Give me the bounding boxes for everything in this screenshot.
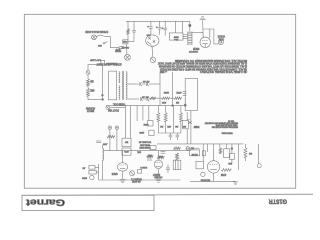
- svg-text:6BQ5: 6BQ5: [192, 47, 199, 50]
- svg-text:PRINTED CANADA: PRINTED CANADA: [221, 132, 232, 135]
- electrolytic capacitor C23: [164, 21, 166, 28]
- resistor R5: [174, 97, 181, 100]
- T3 winding b: [119, 86, 120, 100]
- resistor R4: [161, 97, 169, 100]
- wire: [155, 97, 161, 99]
- T3 core: [121, 71, 123, 100]
- vertical resistor RC: [179, 113, 182, 122]
- component blob E3: [90, 175, 94, 179]
- svg-text:6.3V LAMP: 6.3V LAMP: [89, 58, 101, 61]
- wire foot switch: [110, 107, 126, 109]
- lower bus: [104, 150, 191, 152]
- svg-text:G15TR: G15TR: [269, 197, 287, 204]
- svg-text:GUITAR: GUITAR: [86, 106, 95, 109]
- electrolytic capacitor C21: [150, 21, 152, 27]
- svg-text:Garnet: Garnet: [26, 197, 65, 207]
- component box E1: [89, 165, 95, 169]
- capacitor CGb: [176, 134, 180, 136]
- wire fuse to lamp: [124, 47, 126, 49]
- junction dots on bus: [172, 105, 174, 107]
- svg-text:115V: 115V: [173, 35, 178, 37]
- junction dot in box: [184, 104, 186, 106]
- junction node: [102, 94, 104, 96]
- T3 winding c: [126, 72, 127, 100]
- B+ bus wire: [126, 20, 190, 22]
- svg-text:220K: 220K: [163, 91, 169, 93]
- ground at right bus end: [233, 181, 238, 183]
- wires bottom left: [95, 166, 99, 168]
- wire V6 to jack: [151, 45, 154, 57]
- pilot lamp I1: [125, 54, 131, 60]
- svg-text:2) ALL RESISTORS 1/2 WATT UNLE: 2) ALL RESISTORS 1/2 WATT UNLESS OTHERWI…: [159, 65, 247, 68]
- resistor RD horizontal: [173, 147, 180, 150]
- svg-text:47K: 47K: [148, 154, 152, 156]
- svg-text:2 PRONG PLUG & CORD: 2 PRONG PLUG & CORD: [85, 30, 108, 33]
- plate stub: [209, 29, 211, 38]
- svg-text:G15 TR: G15 TR: [228, 119, 234, 121]
- svg-text:10K: 10K: [162, 101, 166, 103]
- wire drop 2: [130, 106, 132, 139]
- junction dot above T2: [189, 24, 191, 26]
- wire to jack J7: [258, 144, 260, 164]
- component box D2: [196, 161, 204, 169]
- volume pot VR1: [108, 126, 112, 130]
- wire box to cap lead: [128, 41, 134, 43]
- preamp tube V1: [117, 163, 127, 171]
- wire vertical tremolo 1: [159, 72, 161, 106]
- wire drop r4: [226, 144, 228, 149]
- jack J4: [150, 57, 155, 62]
- svg-text:3) ALL CAPACITOR VALUES GIVEN: 3) ALL CAPACITOR VALUES GIVEN IN MFD UNL…: [160, 68, 247, 71]
- svg-text:1M: 1M: [160, 125, 163, 127]
- AC plug P1: [92, 35, 97, 40]
- wire drop r1: [202, 144, 204, 161]
- speaker jack J5: [218, 39, 223, 44]
- wire jack up and over: [88, 65, 101, 71]
- stacked box CB2: [122, 148, 131, 155]
- svg-text:FGW: FGW: [193, 125, 199, 127]
- capacitor right of V2: [166, 167, 170, 169]
- svg-text:12AX7: 12AX7: [152, 173, 160, 176]
- coupling jack J3: [130, 171, 135, 176]
- resistor R13: [244, 148, 247, 158]
- electrolytic capacitor C22: [159, 21, 161, 27]
- jack J6: [201, 172, 205, 176]
- vertical resistor RA: [157, 113, 160, 122]
- resistor under pots: [107, 135, 115, 138]
- wires T3 to caps: [128, 83, 139, 85]
- input jack J1: [86, 71, 90, 75]
- oscillator component box: [101, 60, 105, 64]
- svg-text:6AV6: 6AV6: [111, 172, 117, 175]
- preamp tube V3: [207, 161, 219, 173]
- svg-text:.02 .02: .02 .02: [142, 80, 149, 82]
- wire box to transformer: [183, 36, 185, 38]
- component box E2: [89, 170, 96, 174]
- wire ground to tube: [202, 20, 205, 37]
- hatch box right of V2: [173, 160, 181, 169]
- rectifier tube V6 5Y3: [146, 35, 159, 46]
- capacitor C1 pair: [139, 82, 141, 86]
- resistor R20: [127, 29, 130, 35]
- wire box to preamp bus: [190, 111, 192, 144]
- svg-text:1500: 1500: [81, 176, 87, 178]
- ground below V2: [157, 169, 159, 179]
- wire drop r6: [244, 144, 246, 148]
- power switch box S2: [123, 40, 128, 44]
- capacitor C20: [133, 21, 135, 30]
- small box D3: [202, 151, 205, 156]
- title block separator line: [22, 194, 313, 195]
- svg-text:330K: 330K: [143, 123, 148, 125]
- wire vertical tremolo 2: [172, 72, 174, 106]
- wire bus drop at 128: [127, 21, 129, 28]
- svg-text:117V: 117V: [115, 48, 120, 50]
- preamp tube V2: [154, 160, 162, 168]
- wire from field box lead: [186, 112, 188, 121]
- resistor drop r3: [219, 144, 221, 148]
- capacitor C2 pair: [140, 97, 142, 101]
- svg-text:PWR: PWR: [122, 40, 127, 42]
- lower bus right: [190, 180, 236, 182]
- bus drop to T1 box: [175, 21, 177, 33]
- wire: [169, 97, 174, 99]
- ground at output stage: [200, 19, 206, 21]
- wire to resistor row: [148, 97, 151, 100]
- T2 winding rungs: [188, 32, 192, 44]
- svg-text:47K: 47K: [167, 125, 171, 127]
- switch S1: [103, 43, 104, 44]
- title block Garnet logo box: [22, 195, 154, 210]
- wire loop tube to speaker jack: [203, 29, 218, 44]
- power transformer T1 terminal box: [169, 33, 183, 40]
- wire box to pilot lamp: [126, 44, 128, 55]
- tone pot VR2: [115, 126, 119, 130]
- wire below choke: [101, 161, 103, 181]
- wire down left of transformer: [101, 64, 103, 99]
- border frame: [24, 14, 295, 188]
- resistor R3: [150, 97, 155, 100]
- T1 to T2 stub wires: [183, 35, 188, 39]
- resistor R11: [221, 169, 231, 172]
- fuse F1: [119, 46, 124, 48]
- output transformer T2 rails: [187, 32, 189, 46]
- svg-text:INPUT: INPUT: [86, 109, 94, 112]
- wire T2 to power tube: [192, 32, 203, 34]
- T3 winding a: [119, 72, 120, 84]
- wire vertical tremolo 3 (into field box edge): [184, 98, 186, 105]
- ground below V1: [122, 171, 124, 179]
- svg-text:5K 2W: 5K 2W: [191, 153, 197, 155]
- foot switch jack J2: [106, 106, 110, 110]
- upper right bus: [186, 143, 244, 145]
- right bus extension: [157, 143, 186, 145]
- small comp: [150, 146, 156, 150]
- svg-text:TONE 500K: TONE 500K: [139, 146, 151, 148]
- resistor network above tubes: [147, 157, 152, 159]
- svg-text:1M: 1M: [176, 101, 179, 103]
- trim component mark: [188, 121, 191, 124]
- stacked box CB1: [122, 138, 131, 146]
- jack J7: [257, 164, 261, 168]
- svg-text:1M: 1M: [249, 152, 252, 154]
- svg-text:2.2M 3: 2.2M 3: [140, 166, 147, 168]
- power tube V4 6BQ5: [200, 37, 210, 47]
- svg-text:68K: 68K: [90, 89, 95, 91]
- svg-text:VOICE: VOICE: [217, 35, 225, 37]
- component box D1: [190, 150, 200, 156]
- wire drop mid: [172, 106, 174, 133]
- main horizontal bus: [106, 105, 185, 107]
- svg-text:1M: 1M: [175, 125, 178, 127]
- wires around R1 R2: [87, 75, 89, 79]
- svg-text:REVERB: REVERB: [200, 179, 210, 181]
- wire hline 133: [158, 132, 181, 134]
- svg-text:VOLUME .02: VOLUME .02: [138, 141, 151, 143]
- line cord wire: [96, 35, 119, 48]
- svg-text:TREM COIL: TREM COIL: [112, 103, 125, 105]
- svg-text:.05 .05: .05 .05: [141, 95, 148, 97]
- resistor tails: [231, 159, 233, 163]
- capacitor CF: [96, 140, 101, 142]
- wire drop 1: [124, 106, 126, 139]
- wire drop r2: [207, 144, 209, 152]
- wire drop 5: [148, 106, 150, 121]
- resistor R2: [87, 88, 90, 96]
- tremolo transformer T3 shield box: [109, 71, 117, 100]
- long vline right: [238, 144, 240, 170]
- second right bus segment: [186, 147, 200, 149]
- resistor R1: [87, 79, 90, 86]
- vertical resistor RB: [164, 113, 167, 122]
- svg-text:500K AUD: 500K AUD: [140, 143, 150, 146]
- choke L1: [101, 145, 103, 149]
- svg-text:NOTE: ALL VOLTAGES MEASURED TO: NOTE: ALL VOLTAGES MEASURED TO CHASSIS: [174, 59, 247, 62]
- svg-text:470K: 470K: [220, 173, 226, 175]
- svg-text:COIL: COIL: [218, 37, 224, 39]
- svg-text:100K: 100K: [157, 155, 162, 157]
- svg-text:1M: 1M: [90, 79, 93, 81]
- battery box BB: [224, 149, 230, 158]
- pot knob PK: [186, 147, 189, 150]
- svg-text:470K: 470K: [176, 91, 182, 93]
- wire drop r5: [231, 144, 233, 154]
- svg-text:PH. INV: PH. INV: [154, 176, 162, 178]
- svg-text:MANITOBA CANADA R3E 0M4: MANITOBA CANADA R3E 0M4: [211, 126, 238, 129]
- svg-text:1) ALL READINGS TAKEN WITH VTV: 1) ALL READINGS TAKEN WITH VTVM WITH NO …: [158, 62, 247, 65]
- wire drop 3: [136, 106, 138, 121]
- component box CD: [149, 130, 154, 135]
- resistor box R12: [229, 154, 234, 160]
- wire bus to T2: [189, 21, 191, 31]
- component box CJ: [183, 121, 189, 129]
- component box CE: [138, 170, 142, 174]
- wire drop 4: [142, 106, 144, 121]
- wire R20 to switch box: [127, 34, 129, 40]
- speaker field box: [185, 79, 197, 111]
- V3 stem to bus: [213, 173, 215, 181]
- svg-text:FOOT SW: FOOT SW: [107, 108, 119, 110]
- component box CC: [148, 121, 154, 127]
- capacitor CGa: [169, 134, 173, 136]
- svg-text:ON-OFF: ON-OFF: [121, 46, 129, 48]
- resistor R10: [176, 153, 179, 160]
- svg-text:4) LINE VOLTAGE 117VAC: 4) LINE VOLTAGE 117VAC: [200, 70, 247, 73]
- svg-text:TREMOLO: TREMOLO: [106, 62, 118, 65]
- capacitor under V2 area: [161, 151, 166, 153]
